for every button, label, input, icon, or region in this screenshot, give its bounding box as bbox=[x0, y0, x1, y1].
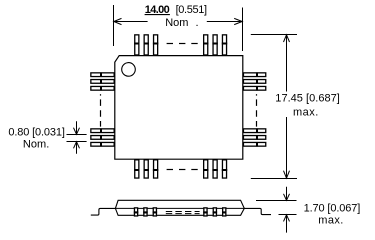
dimension 14.00: dimension line right segment with arrow bbox=[207, 18, 243, 24]
right pin group 1 bbox=[243, 72, 265, 90]
side view: visible leads group 1 bbox=[134, 208, 157, 216]
bottom pin group 2 bbox=[203, 160, 227, 178]
side view: left gull-wing lead bbox=[91, 208, 116, 215]
svg-text:0.80 [0.031]: 0.80 [0.031] bbox=[8, 126, 65, 138]
side view: package body profile bbox=[115, 200, 244, 215]
right hidden-pins centerline (dot + dashes) bbox=[256, 94, 258, 95]
side view: lead frame line through body bbox=[115, 207, 244, 209]
dimension 1.70: bottom arrow pointing up bbox=[284, 215, 290, 233]
side view: right gull-wing lead bbox=[244, 208, 271, 214]
svg-text:max.: max. bbox=[293, 106, 318, 118]
svg-text:.: . bbox=[46, 139, 49, 151]
side view: hidden leads double dashed line bbox=[166, 211, 200, 213]
dimension 17.45: top extension line bbox=[251, 34, 297, 36]
bottom hidden-pins centerline dashes bbox=[167, 169, 198, 171]
left hidden-pins centerline (dot + dashes) bbox=[100, 94, 102, 95]
svg-text:Nom: Nom bbox=[23, 139, 46, 151]
bottom pin group 1 bbox=[134, 160, 158, 178]
dimension 14.00: right extension line bbox=[242, 8, 244, 52]
svg-text:Nom: Nom bbox=[165, 17, 188, 29]
top pin group 1 (pins 1-3 top row) bbox=[134, 35, 158, 55]
dimension 1.70: bottom extension line bbox=[279, 214, 297, 216]
svg-text:.: . bbox=[196, 17, 199, 29]
dimension 17.45: vertical dimension line with arrows bbox=[284, 35, 290, 178]
dimension 17.45: bottom extension line bbox=[251, 178, 297, 180]
top pin group 2 bbox=[203, 35, 227, 55]
package body U1 (top view outline with chamfered pin-1 corner) bbox=[115, 56, 243, 160]
right pin group 2 bbox=[243, 128, 265, 146]
svg-text:max.: max. bbox=[318, 215, 343, 227]
dimension 1.70: top extension line bbox=[256, 200, 297, 202]
dimension 1.70: top arrow pointing down bbox=[284, 187, 290, 201]
dimension 0.80: lower arrow pointing up bbox=[74, 142, 80, 154]
svg-text:[0.551]: [0.551] bbox=[176, 4, 207, 16]
side view: visible leads group 2 bbox=[203, 208, 226, 216]
svg-text:1.70 [0.067]: 1.70 [0.067] bbox=[304, 202, 361, 214]
dimension 0.80: upper extension line bbox=[67, 134, 87, 136]
dimension 0.80: lower extension line bbox=[67, 141, 87, 143]
top hidden-pins centerline dashes bbox=[167, 43, 198, 45]
svg-text:17.45 [0.687]: 17.45 [0.687] bbox=[275, 93, 340, 105]
dimension 14.00: left extension line bbox=[113, 5, 115, 46]
dimension 14.00: dimension line left segment with arrow bbox=[114, 18, 148, 24]
left pin group 2 bbox=[91, 128, 114, 146]
left pin group 1 bbox=[91, 72, 114, 90]
dimension 0.80: upper arrow pointing down bbox=[74, 121, 80, 134]
pin 1 index circle bbox=[122, 63, 136, 77]
